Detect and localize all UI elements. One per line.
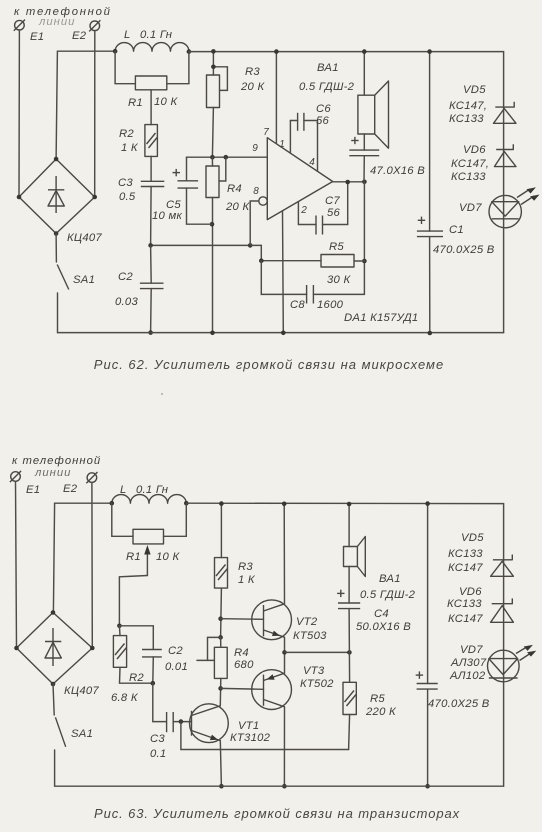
svg-text:R4: R4 [234, 647, 249, 659]
svg-text:56: 56 [316, 115, 330, 127]
svg-text:КЦ407: КЦ407 [64, 685, 99, 697]
svg-text:220 К: 220 К [365, 706, 397, 718]
resistor R5 (2) [343, 682, 356, 714]
wire rail to C1 [429, 52, 431, 232]
wire R1 right leg [167, 52, 189, 84]
svg-text:С2: С2 [168, 645, 183, 657]
terminal E1 (2) [10, 471, 21, 482]
svg-text:47.0X16 В: 47.0X16 В [370, 165, 425, 177]
capacitor C6 [298, 113, 304, 131]
svg-text:R4: R4 [227, 183, 242, 195]
transistor VT2 КТ503 [252, 600, 292, 640]
svg-text:С7: С7 [325, 195, 340, 207]
zener VD6 (2) [491, 598, 514, 622]
node: R4 tap junction [224, 155, 229, 160]
node: bridge top [54, 157, 59, 162]
plus sign 47uF [351, 137, 358, 144]
svg-text:0.5 ГДШ-2: 0.5 ГДШ-2 [360, 589, 416, 601]
wire R5 top (2) [348, 652, 350, 682]
capacitor 47.0X16 (electrolytic) [349, 150, 379, 156]
wire R3 bottom to pin9 net [212, 108, 213, 158]
node: C1 at rail top [427, 49, 432, 54]
svg-text:20 К: 20 К [240, 81, 265, 93]
svg-text:R1: R1 [126, 551, 141, 563]
svg-text:1 К: 1 К [121, 142, 139, 154]
svg-text:1 К: 1 К [238, 574, 256, 586]
terminal E2 (2) [86, 472, 97, 483]
node: R1 wiper / R2 top (2) [117, 624, 122, 629]
speaker BA1 (2) [344, 537, 366, 577]
wire C8 right [313, 293, 364, 295]
wire wiper node to C2 (2) [119, 626, 153, 650]
svg-text:0.1 Гн: 0.1 Гн [140, 29, 172, 41]
node: VT3 collector at rail [282, 784, 287, 789]
svg-text:R5: R5 [329, 241, 344, 253]
wire switch to ground rail [58, 293, 504, 333]
svg-text:470.0X25 В: 470.0X25 В [433, 244, 495, 256]
svg-text:VТ3: VТ3 [303, 665, 325, 677]
svg-text:С3: С3 [118, 177, 133, 189]
node: big cap at rail (2) [425, 501, 430, 506]
wire R4 top [211, 157, 213, 166]
zener VD5 [494, 102, 517, 124]
wire R4 bottom (2) [220, 678, 222, 688]
wire C3 to node [150, 187, 153, 246]
svg-text:КЦ407: КЦ407 [67, 232, 102, 244]
capacitor 470.0X25 (2) [417, 684, 438, 690]
node: inductor left [113, 49, 118, 54]
svg-text:VD7: VD7 [459, 202, 482, 214]
svg-text:линии: линии [34, 467, 71, 479]
wire C6 right to pin4 [304, 121, 318, 172]
wire output [333, 181, 365, 183]
node: feedback left [259, 258, 264, 263]
resistor R4 trimmer (2) [214, 647, 227, 678]
resistor R3 (trimmer) [207, 75, 220, 108]
LED VD7 arrows [517, 187, 540, 204]
node: speaker at rail [362, 49, 367, 54]
node: R4/VT1/VT3 (2) [218, 686, 223, 691]
wire VT3 collector to rail [283, 707, 285, 786]
svg-text:R3: R3 [238, 561, 253, 573]
node: VT2 collector at rail [282, 502, 287, 507]
node: pin7 at rail [274, 49, 279, 54]
svg-text:линии: линии [38, 16, 75, 28]
wire to VT3 base (2) [221, 687, 264, 690]
inductor L1 [115, 43, 189, 52]
transistor VT1 КТ3102 [190, 704, 229, 743]
svg-text:R2: R2 [129, 672, 144, 684]
capacitor C2 (2) [142, 650, 162, 657]
wire bridge bottom to switch [55, 234, 57, 263]
svg-text:Е1: Е1 [30, 31, 44, 43]
svg-text:0.01: 0.01 [165, 661, 188, 673]
svg-text:L: L [124, 29, 131, 41]
node: VT1 emitter at rail [219, 784, 224, 789]
node: big cap at bottom rail (2) [425, 784, 430, 789]
wire R1 left leg (2) [112, 503, 133, 536]
wire pin 7 supply [275, 52, 277, 144]
svg-text:10 К: 10 К [156, 551, 180, 563]
node: C2 at rail [148, 330, 153, 335]
svg-text:VТ1: VТ1 [238, 720, 259, 732]
R4 wiper tap (2) [197, 659, 214, 661]
node: R4 top (2) [218, 635, 223, 640]
node: VT1 base (2) [179, 719, 184, 724]
node: R3/R4 junction [210, 155, 215, 160]
resistor R1 [135, 76, 166, 90]
svg-text:VD6: VD6 [463, 144, 486, 156]
scan speck [161, 393, 163, 395]
R4 wiper tap [219, 157, 226, 181]
node: C5 bottom junction [210, 222, 215, 227]
wire bridge top riser [56, 51, 115, 159]
wire R2 to C3 [150, 156, 152, 181]
wire VT2 base (2) [221, 618, 264, 621]
svg-text:Рис. 62. Усилитель громкой свя: Рис. 62. Усилитель громкой связи на микр… [94, 357, 444, 372]
resistor R3 (2) [215, 558, 228, 589]
resistor R2 [145, 125, 158, 157]
node: bridge bottom [54, 231, 59, 236]
R4 wiper route (2) [208, 637, 221, 660]
wire E1 to bridge left (2) [16, 481, 17, 648]
node: R3 at rail [211, 49, 216, 54]
resistor R2 (2) [113, 636, 126, 668]
svg-text:КТ503: КТ503 [293, 630, 327, 642]
svg-text:VD6: VD6 [459, 586, 482, 598]
wire R3 top (2) [220, 504, 222, 558]
svg-text:КС133: КС133 [447, 598, 482, 610]
wire R5 left [261, 260, 321, 262]
wire big cap to bottom rail (2) [427, 689, 429, 786]
wire output down to feedback [363, 182, 365, 295]
svg-text:R5: R5 [370, 693, 385, 705]
node: R5 right [362, 259, 367, 264]
wire C2 bottom (2) [152, 657, 155, 683]
node: C1 at ground rail [428, 331, 433, 336]
wire R4 bottom to rail [212, 198, 214, 333]
node: inductor right (2) [184, 501, 189, 506]
wire C5 top to pin9 net [186, 157, 188, 181]
switch SA1 blade [57, 265, 69, 290]
node: VT2 base tap (2) [218, 616, 223, 621]
wire pin2 stub [298, 202, 316, 225]
wire R1 right leg (2) [164, 503, 187, 536]
wire E1 to bridge left [18, 30, 20, 197]
svg-text:АЛ102: АЛ102 [449, 670, 486, 682]
svg-text:VD5: VD5 [463, 84, 486, 96]
svg-text:470.0X25 В: 470.0X25 В [428, 698, 490, 710]
wire R5 right [354, 260, 364, 262]
terminal E2 [89, 20, 100, 31]
svg-text:680: 680 [234, 659, 254, 671]
svg-text:0.5: 0.5 [119, 191, 136, 203]
svg-text:R3: R3 [245, 66, 260, 78]
svg-text:56: 56 [327, 207, 341, 219]
capacitor C4 (2) [338, 603, 360, 609]
R1 wiper arrow (2) [144, 545, 150, 576]
wire C5 bottom loop [187, 188, 213, 224]
svg-text:КС133: КС133 [449, 113, 484, 125]
capacitor C3 [141, 181, 165, 186]
node: R3 tap [211, 65, 216, 70]
wire op-amp V- to rail [282, 211, 285, 333]
svg-text:9: 9 [252, 143, 258, 154]
wire bridge top riser (2) [53, 503, 111, 612]
plus sign C4 (2) [337, 590, 344, 597]
plus sign big cap (2) [416, 671, 423, 678]
svg-text:КС147: КС147 [448, 562, 483, 574]
resistor R4 (trimmer) [206, 166, 219, 198]
wire node down to C3 (2) [153, 683, 166, 721]
svg-text:30 К: 30 К [327, 274, 351, 286]
wire C1 to rail [429, 237, 431, 333]
svg-text:2: 2 [300, 205, 307, 216]
wire VT3 emitter up [284, 652, 286, 673]
node: output junction [362, 180, 367, 185]
transistor VT3 КТ502 [252, 670, 292, 710]
svg-text:R2: R2 [119, 128, 134, 140]
wire top rail (2) [186, 503, 503, 786]
svg-text:VТ2: VТ2 [296, 616, 318, 628]
svg-text:к телефонной: к телефонной [12, 455, 101, 467]
wire inverting net horizontal [151, 244, 251, 246]
svg-text:SA1: SA1 [71, 728, 93, 740]
capacitor C7 [316, 216, 323, 235]
wire rail to big cap (2) [427, 504, 429, 684]
wire VT2 collector to rail [283, 504, 285, 604]
node: R2/C2/C3 (2) [151, 681, 156, 686]
svg-text:С1: С1 [449, 224, 464, 236]
svg-text:КС147,: КС147, [451, 158, 489, 170]
svg-text:С6: С6 [316, 103, 331, 115]
terminal E1 [14, 20, 25, 31]
svg-text:VD5: VD5 [461, 532, 484, 544]
node: inductor right [187, 49, 192, 54]
wire R5 bottom (2) [349, 715, 350, 750]
resistor R5 [321, 255, 354, 268]
svg-text:8: 8 [253, 186, 259, 197]
pin 8 inversion circle [259, 197, 267, 205]
wire C2 to ground rail [150, 289, 153, 333]
svg-text:ВА1: ВА1 [317, 62, 339, 74]
wire C4 to output node (2) [348, 609, 350, 653]
capacitor C3 (2) [167, 712, 174, 732]
wire R3 bottom (2) [220, 588, 223, 637]
wire rail to speaker (2) [348, 504, 350, 547]
switch SA1 blade (2) [55, 717, 65, 747]
wire pin1 stub up [289, 121, 291, 154]
svg-text:ВА1: ВА1 [379, 573, 401, 585]
wire R1 left leg [115, 51, 135, 83]
LED VD7 [489, 195, 521, 227]
bridge diode symbol (2) [45, 628, 61, 666]
svg-text:КТ3102: КТ3102 [230, 732, 271, 744]
wire bridge bottom to switch (2) [53, 684, 54, 715]
svg-text:АЛ307: АЛ307 [450, 657, 487, 669]
wire pin 8 [250, 201, 259, 245]
svg-text:КС147: КС147 [448, 613, 483, 625]
wire C7 right to output [323, 182, 348, 224]
wire VT1 collector (2) [219, 688, 221, 705]
wire R3 top [212, 51, 214, 75]
C5 plus sign [173, 169, 181, 176]
svg-text:Рис. 63. Усилитель громкой свя: Рис. 63. Усилитель громкой связи на тран… [94, 806, 460, 821]
wire VT1 emitter to rail (2) [220, 741, 221, 787]
svg-text:0.03: 0.03 [115, 296, 138, 308]
bridge rectifier VD1-VD4 КЦ407 [19, 159, 95, 234]
node: R4 at rail [210, 331, 215, 336]
wire switch to bottom rail (2) [55, 750, 504, 786]
wire 47uF to output [363, 156, 365, 182]
svg-text:4: 4 [309, 157, 315, 168]
wire pin 9 net horizontal [187, 156, 268, 158]
wire output line (2) [285, 651, 350, 653]
svg-text:SA1: SA1 [73, 274, 95, 286]
svg-text:0.5 ГДШ-2: 0.5 ГДШ-2 [299, 81, 355, 93]
svg-text:L: L [120, 484, 127, 496]
bridge diode symbol [48, 176, 64, 213]
node: output right (2) [347, 650, 352, 655]
wire feedback jog [250, 245, 261, 260]
zener VD6 [494, 144, 516, 166]
svg-text:КС133: КС133 [448, 548, 483, 560]
inductor L (2) [112, 495, 186, 504]
svg-text:DA1 К157УД1: DA1 К157УД1 [344, 312, 418, 324]
capacitor C8 [307, 285, 314, 304]
svg-text:КТ502: КТ502 [300, 678, 334, 690]
svg-text:6.8 К: 6.8 К [111, 692, 139, 704]
svg-text:20 К: 20 К [225, 201, 250, 213]
plus sign C1 [418, 217, 425, 224]
svg-text:КС147,: КС147, [449, 100, 487, 112]
svg-text:С2: С2 [118, 271, 133, 283]
R3 wiper tap [213, 67, 227, 91]
svg-text:7: 7 [263, 127, 269, 138]
node: C3/C2 junction [148, 243, 153, 248]
speaker BA1 [358, 81, 389, 148]
node: speaker at rail (2) [347, 502, 352, 507]
wire C3 to VT1 base (2) [173, 721, 191, 723]
node: pin8 junction [248, 243, 253, 248]
wire base node down / R5 feedback (2) [181, 722, 349, 750]
wire R1 wiper run (2) [119, 576, 147, 626]
wire R2 bottom to node (2) [120, 667, 153, 683]
svg-text:50.0X16 В: 50.0X16 В [356, 621, 411, 633]
svg-text:Е2: Е2 [63, 483, 78, 495]
svg-text:VD7: VD7 [460, 644, 483, 656]
wire E2 to bridge right [94, 31, 96, 197]
svg-text:С8: С8 [290, 299, 305, 311]
node: inductor left (2) [110, 501, 115, 506]
node: bridge left (2) [14, 646, 19, 651]
node: bridge left [17, 195, 22, 200]
wire R1 tap to R2 [150, 90, 152, 125]
svg-text:С3: С3 [150, 733, 165, 745]
node: bridge bottom (2) [51, 682, 56, 687]
wire speaker to C4 (2) [348, 567, 350, 604]
node: bridge right [92, 195, 97, 200]
wire C8 left branch [261, 261, 306, 295]
wire rail to speaker [363, 52, 365, 96]
wire speaker to C9 [363, 134, 365, 150]
LED VD7 arrows (2) [516, 645, 536, 661]
svg-text:С4: С4 [374, 608, 389, 620]
capacitor C5 (electrolytic) [178, 181, 199, 188]
svg-text:1600: 1600 [317, 299, 344, 311]
zener VD5 (2) [491, 555, 514, 577]
node: R3 at rail (2) [219, 501, 224, 506]
capacitor C2 [140, 283, 164, 288]
node: V- at rail [281, 331, 286, 336]
svg-text:КС133: КС133 [451, 171, 486, 183]
wire R2 top (2) [118, 626, 121, 636]
wire E2 to bridge right (2) [91, 482, 93, 648]
svg-text:0.1: 0.1 [150, 748, 166, 760]
node: bridge right (2) [90, 646, 95, 651]
op-amp DA1 triangle [267, 138, 332, 220]
wire VT2 emitter down [284, 637, 286, 652]
svg-text:10 мк: 10 мк [152, 210, 182, 222]
node: output node (2) [282, 650, 287, 655]
svg-text:Е2: Е2 [72, 30, 87, 42]
capacitor C1 (electrolytic) [417, 231, 443, 237]
wire node to C2 [150, 245, 153, 283]
svg-text:Е1: Е1 [26, 484, 40, 496]
wire C6 left [290, 120, 297, 122]
bridge rectifier КЦ407 (2) [17, 613, 93, 685]
svg-text:10 К: 10 К [154, 96, 178, 108]
potentiometer R1 (2) [133, 529, 164, 544]
wire R4 top leg (2) [220, 637, 222, 647]
node: C7 at output [345, 180, 350, 185]
LED VD7 (2) [488, 650, 520, 682]
svg-text:1: 1 [279, 139, 285, 150]
svg-text:0.1 Гн: 0.1 Гн [136, 484, 168, 496]
wire top rail to right edge [189, 52, 504, 333]
svg-text:R1: R1 [128, 97, 143, 109]
node: bridge top (2) [51, 610, 56, 615]
